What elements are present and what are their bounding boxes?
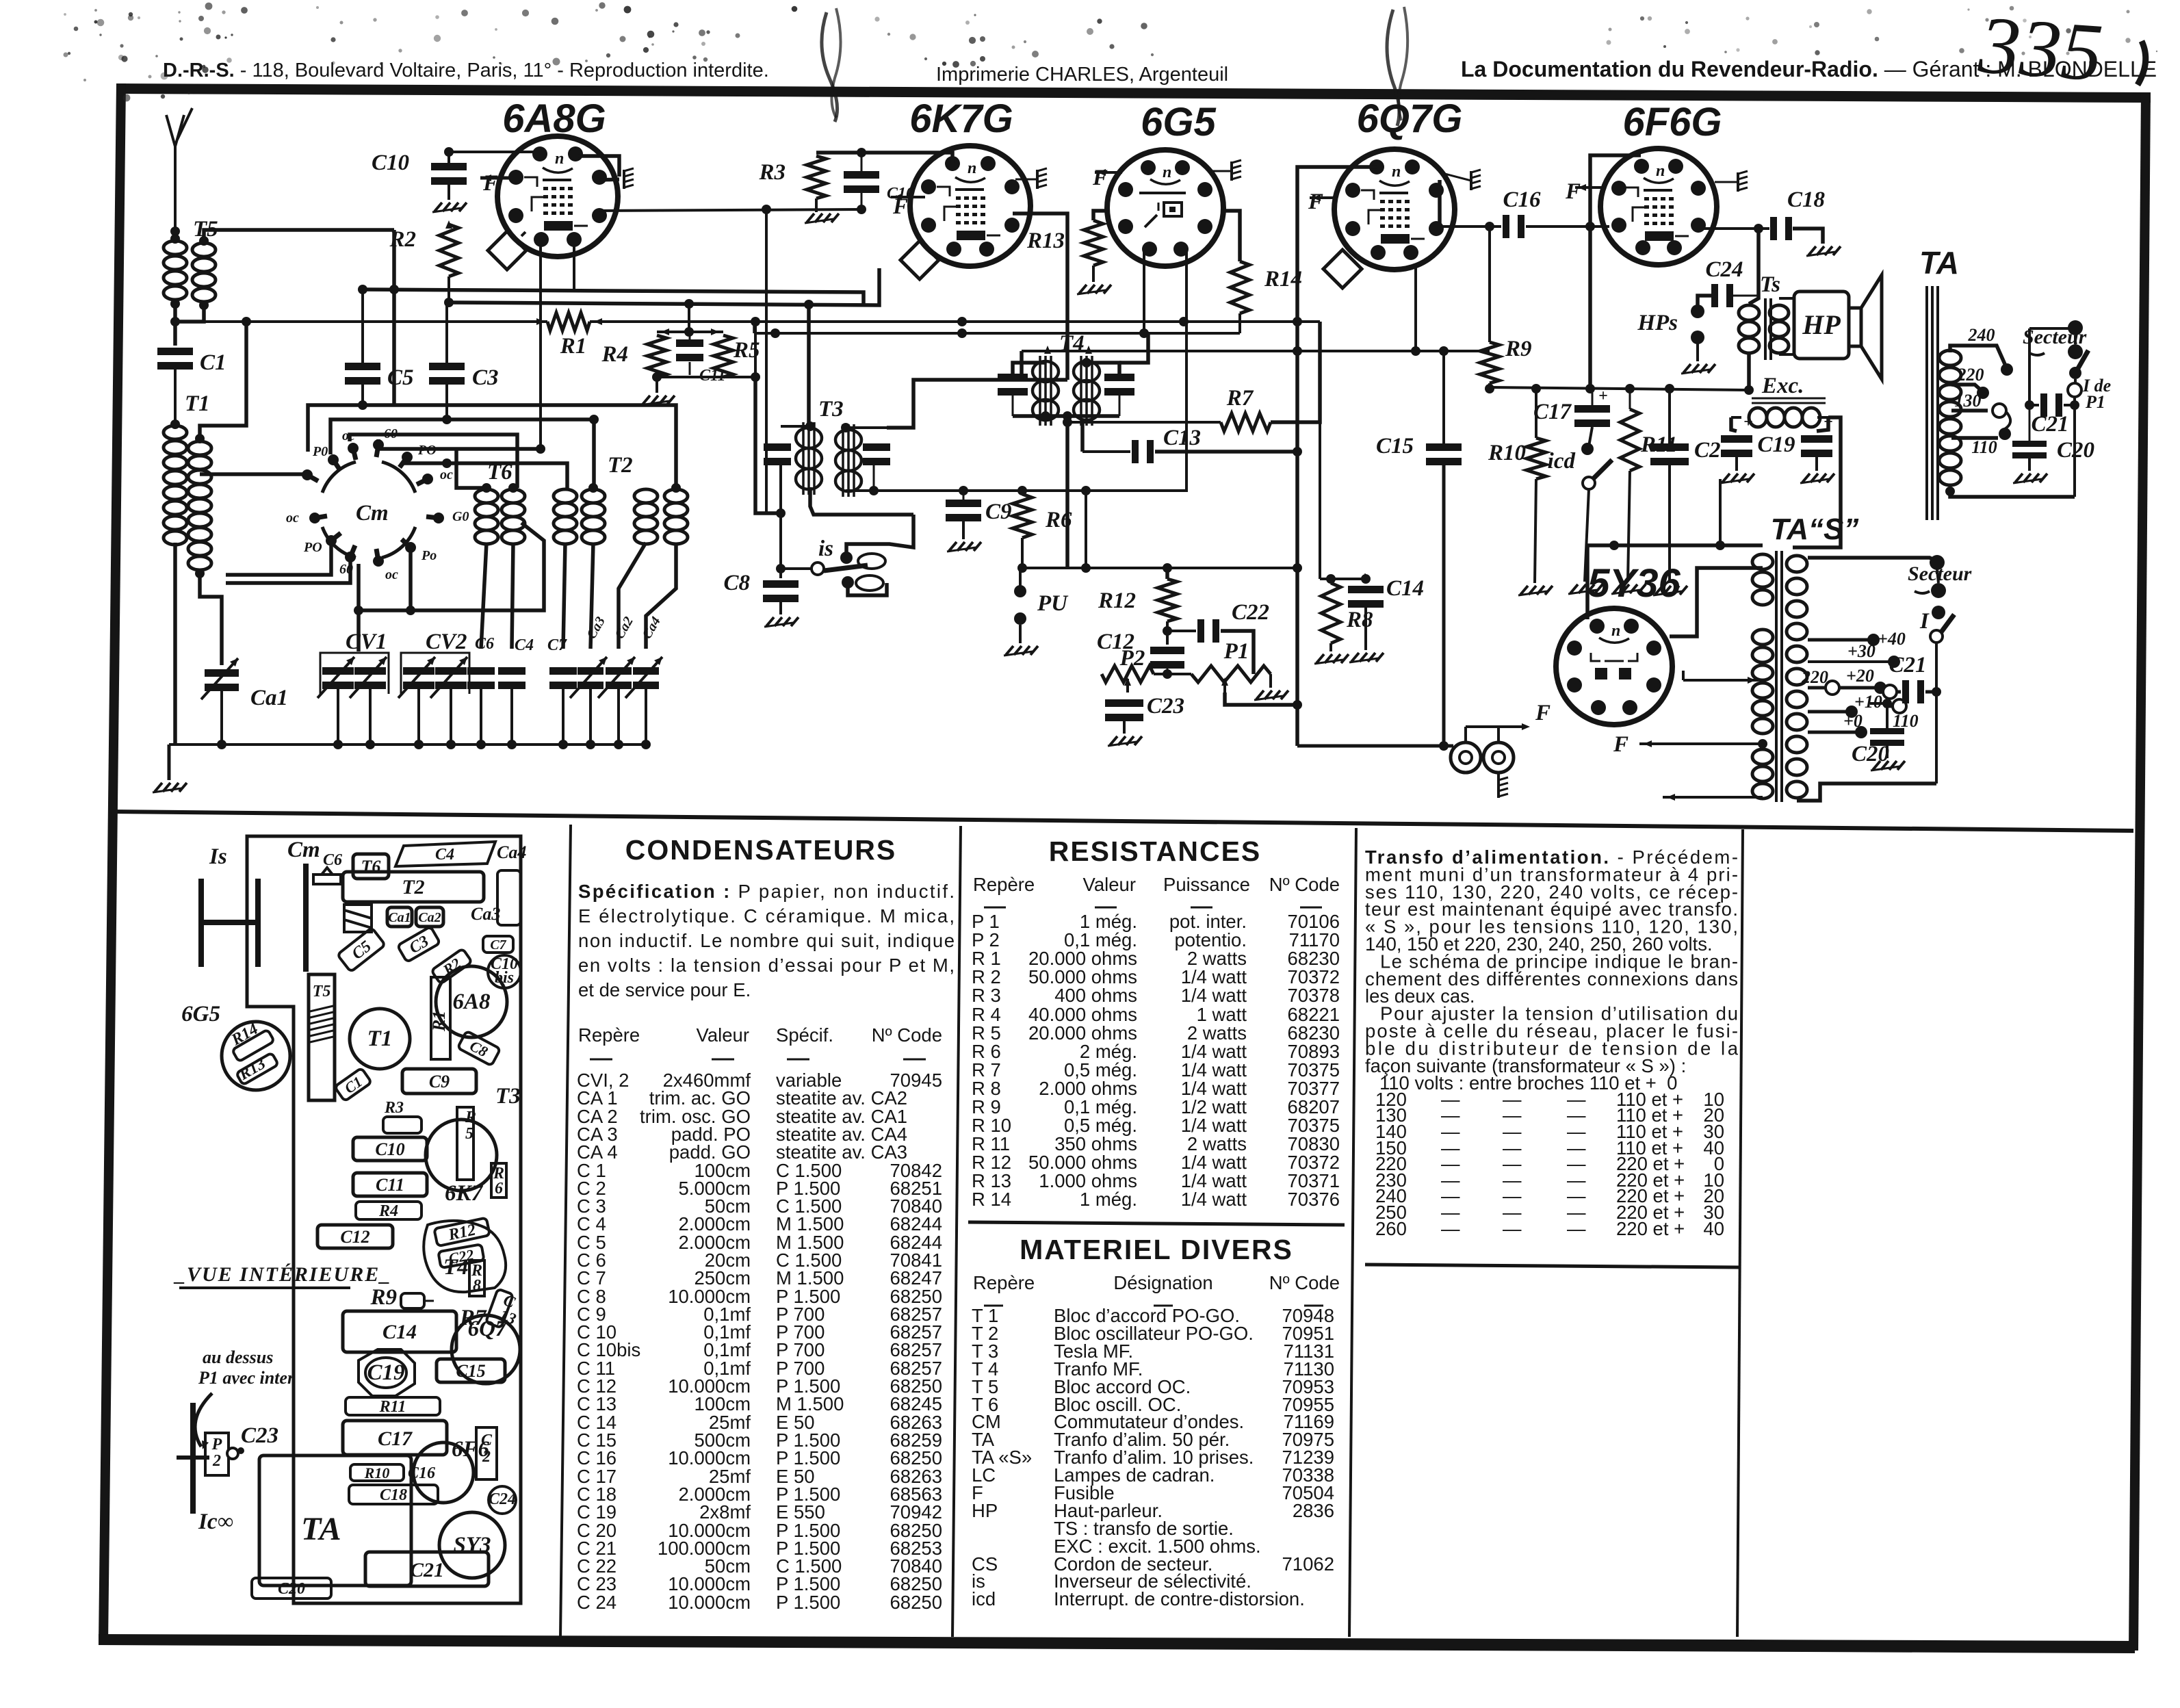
label Secteur TAS	[1908, 562, 1972, 593]
wire C19a stem	[1731, 417, 1737, 435]
svg-text:MATERIEL DIVERS: MATERIEL DIVERS	[1020, 1234, 1293, 1265]
svg-text:R1: R1	[560, 334, 587, 359]
svg-text:C18: C18	[380, 1486, 407, 1504]
svg-text:R9: R9	[1505, 337, 1532, 361]
svg-text:C9: C9	[429, 1072, 450, 1091]
coil T6 secondary	[502, 483, 525, 544]
wire TAS sec tap +20	[1839, 666, 1886, 694]
wire Ca3 to ground bus	[586, 689, 595, 749]
wire T2 w1 bottom to C7	[563, 543, 565, 649]
label F TAS	[1613, 732, 1628, 757]
transformer TA winding	[1939, 350, 1961, 485]
ground R10	[1518, 479, 1553, 595]
svg-text:Is: Is	[209, 844, 227, 869]
resistor R9	[1480, 337, 1532, 383]
coil T2 w2	[582, 483, 605, 544]
svg-text:n: n	[1656, 162, 1665, 180]
wire V5 plate line	[1704, 224, 1769, 233]
box C17 vue	[343, 1421, 447, 1455]
heater arrow jacks	[1466, 723, 1530, 742]
box P2 vue	[205, 1433, 238, 1475]
ground R13	[1077, 266, 1111, 294]
capacitor C13	[1132, 426, 1201, 463]
resistor R3	[758, 156, 826, 198]
tilted R2 vue	[431, 948, 472, 985]
ground HPs	[1681, 344, 1715, 374]
label T2	[608, 453, 633, 478]
svg-text:C11: C11	[376, 1175, 404, 1195]
svg-text:F: F	[1613, 732, 1628, 757]
label F V4	[1308, 190, 1323, 214]
potentiometer P2	[1102, 646, 1154, 682]
label T3	[818, 397, 844, 422]
capacitor C7	[547, 636, 577, 689]
chassis outline	[247, 836, 521, 1603]
wire Exc right down	[1793, 417, 1841, 547]
label Ca4 vue	[497, 842, 526, 862]
svg-text:C17: C17	[1533, 400, 1572, 424]
svg-text:C4: C4	[435, 846, 454, 864]
svg-text:C14: C14	[1386, 576, 1424, 601]
svg-text:Valeur: Valeur	[697, 1024, 749, 1046]
svg-text:non inductif. Le nombre qui su: non inductif. Le nombre qui suit, indiqu…	[578, 930, 955, 951]
wire R9 stem vue	[424, 1300, 434, 1302]
svg-text:Puissance: Puissance	[1163, 874, 1250, 895]
svg-text:F: F	[1535, 701, 1550, 725]
label F jacks	[1535, 701, 1550, 725]
svg-text:240: 240	[1968, 325, 1995, 345]
label C10	[372, 151, 409, 175]
label Exc	[1752, 374, 1826, 403]
wire bus avc (y487)	[755, 328, 1240, 338]
svg-text:n: n	[1392, 163, 1401, 181]
svg-text:PO: PO	[303, 540, 322, 555]
svg-text:R10: R10	[364, 1464, 390, 1481]
label CV2	[426, 630, 467, 654]
svg-text:C10: C10	[375, 1139, 404, 1159]
wire V1 cathode drop	[539, 237, 542, 449]
svg-text:C3: C3	[472, 365, 499, 390]
wire TA tap 240	[1950, 325, 2013, 376]
label C16	[1503, 187, 1541, 212]
svg-text:C22: C22	[1232, 600, 1269, 625]
wire TAS sec top	[1808, 558, 1937, 561]
wire C21 TAS leads	[1883, 685, 1941, 699]
svg-text:T6: T6	[361, 857, 381, 877]
box R9 vue	[369, 1285, 424, 1310]
box T5 vue	[309, 974, 335, 1100]
label Ico vue	[198, 1510, 233, 1534]
ground C18	[1806, 246, 1841, 256]
wire C2 top	[1668, 389, 1671, 443]
page frame right border	[2129, 92, 2151, 1651]
svg-text:C13: C13	[1163, 426, 1201, 450]
wire R4 cluster top rail	[657, 328, 723, 335]
hex C19 vue	[359, 1349, 415, 1396]
IF transformer T4 primary	[1033, 356, 1059, 426]
dial Is	[201, 879, 258, 967]
wire T4 bottom rail	[1013, 396, 1119, 421]
svg-text:is: is	[818, 536, 833, 561]
capacitor C9	[946, 500, 1012, 524]
label TA	[1919, 245, 1959, 281]
svg-text:+0: +0	[1843, 711, 1863, 731]
svg-text:8: 8	[473, 1277, 481, 1295]
header imprint right	[1461, 57, 2157, 81]
wire T1 primary bottom to ground bus	[173, 543, 177, 745]
divider schematic/tables	[112, 812, 2133, 831]
svg-text:C19: C19	[1757, 432, 1795, 457]
wire T3 sec bottom bus	[846, 486, 1188, 495]
label R2	[389, 227, 416, 252]
wire TA tap 110	[1951, 437, 1998, 457]
svg-text:TA: TA	[301, 1511, 341, 1547]
svg-text:C2: C2	[1694, 438, 1721, 463]
ground C23	[1108, 721, 1142, 746]
wire TAS mid tap	[1683, 671, 1759, 684]
svg-text:260: 260	[1375, 1218, 1407, 1239]
wire CV2a to ground bus	[414, 689, 424, 749]
node HPs	[1637, 305, 1704, 344]
text VUE INTERIEURE	[173, 1263, 391, 1288]
wire V4 shell gnd	[1440, 172, 1471, 181]
antenna	[166, 108, 192, 236]
svg-text:E électrolytique. C céramique.: E électrolytique. C céramique. M mica,	[578, 905, 955, 927]
wire R1 right bus	[590, 317, 1320, 326]
wire C3 bottom	[442, 385, 452, 424]
wire C13 left	[1082, 422, 1130, 452]
wire TAS sec tap 220	[1801, 667, 1839, 695]
wire T3 bottom left elbow	[810, 487, 913, 515]
wire CV2b to ground bus	[446, 689, 456, 749]
svg-text:2: 2	[212, 1452, 221, 1470]
svg-text:C23: C23	[1147, 694, 1184, 719]
svg-text:Cm: Cm	[356, 501, 389, 526]
ground P1	[1254, 674, 1288, 700]
wire V1 screen drop	[573, 237, 575, 291]
tube V5 6F6G	[1600, 148, 1717, 265]
switch is	[781, 552, 868, 588]
svg-text:Ca3: Ca3	[471, 904, 500, 924]
svg-text:110: 110	[1893, 711, 1919, 731]
label Is	[209, 844, 227, 869]
wire avc elbow	[753, 322, 757, 333]
switch secteur TAS	[1919, 555, 1954, 643]
wire C20 stem	[2029, 405, 2031, 441]
resistor R10	[1488, 438, 1546, 479]
switch secteur TA	[2029, 320, 2088, 379]
field coil Exc	[1731, 408, 1828, 427]
svg-text:Ca1: Ca1	[250, 686, 288, 710]
svg-text:RESISTANCES: RESISTANCES	[1049, 836, 1262, 867]
svg-text:T1: T1	[367, 1026, 393, 1051]
circle 6G5 vue	[181, 1002, 290, 1090]
svg-text:2836: 2836	[1293, 1500, 1334, 1521]
title CONDENSATEURS	[625, 834, 897, 866]
resistances table header	[973, 874, 1340, 907]
wire C3 top	[445, 302, 448, 363]
capacitor C11	[676, 332, 726, 385]
capacitor C4	[498, 636, 534, 689]
wire Cm nest bus 3	[350, 435, 517, 488]
svg-text:n: n	[1163, 164, 1171, 181]
wire grid bus left	[173, 322, 177, 346]
capacitor C12	[1097, 630, 1184, 669]
wire V6 top feed	[1715, 479, 1725, 550]
wire Cm bottom bus	[359, 523, 544, 610]
wire T3 right rail up	[887, 267, 1067, 428]
svg-text:R 14: R 14	[972, 1189, 1011, 1210]
condensateurs table rows	[577, 1070, 942, 1613]
wire bus y568	[1490, 384, 1749, 393]
svg-text:R7: R7	[1226, 386, 1254, 411]
wire R10 top	[1531, 384, 1541, 438]
svg-text:6A8G: 6A8G	[502, 96, 606, 141]
svg-text:C1: C1	[200, 350, 226, 375]
svg-text:R3: R3	[384, 1099, 404, 1117]
tube V6 5Y3G	[1556, 608, 1672, 725]
wire TA bottom rail	[1945, 487, 2075, 497]
svg-text:C21: C21	[1889, 653, 1926, 677]
svg-text:6A8: 6A8	[452, 989, 490, 1014]
label T4	[1059, 331, 1085, 356]
circle T1 vue	[350, 1009, 410, 1069]
svg-text:5Y36: 5Y36	[1587, 561, 1681, 606]
gang capacitor CV2a	[398, 657, 435, 698]
svg-text:+20: +20	[1846, 666, 1874, 686]
svg-text:n: n	[1611, 622, 1620, 640]
ground symbol main	[153, 745, 187, 792]
box C10 vue	[353, 1137, 427, 1161]
trimmer Ca2	[598, 614, 636, 698]
capacitor C19b	[1801, 413, 1833, 457]
svg-text:Ca2: Ca2	[418, 910, 441, 925]
ground PU	[1004, 625, 1038, 656]
wire TAS right vert	[1935, 642, 1938, 784]
paragraph condensateurs spec	[578, 881, 955, 1000]
wire R14 top	[1223, 211, 1240, 261]
heater arrow V2	[891, 194, 925, 200]
wire C15 bottom	[1439, 465, 1449, 751]
wire P2 to C12	[1154, 669, 1172, 679]
wire R6 bottom	[1017, 538, 1091, 573]
capacitor C16	[1503, 215, 1524, 238]
wire bus osc (y423)	[358, 285, 864, 306]
capacitor C18	[1770, 187, 1825, 240]
output transformer Ts secondary	[1769, 305, 1789, 353]
wire T3 top rail left	[781, 422, 815, 431]
capacitor C5	[345, 363, 414, 390]
wire R5 rail down to C8	[755, 377, 781, 513]
label 6A8G	[502, 96, 606, 141]
svg-text:C4: C4	[515, 636, 534, 654]
svg-text:oc: oc	[385, 567, 398, 582]
wire C16 line	[1440, 180, 1609, 231]
svg-text:R10: R10	[1488, 441, 1526, 465]
box C18 vue	[349, 1485, 438, 1504]
ground C9	[947, 521, 981, 552]
wire R9 bottom	[1485, 383, 1494, 393]
wire bus y513	[1022, 346, 1490, 356]
capacitor C8	[723, 571, 799, 602]
wire T3 plate vert	[804, 300, 814, 425]
label Cm vue	[287, 838, 320, 862]
ground C14	[1349, 653, 1384, 662]
wire C10 top	[444, 147, 454, 163]
wire C22 left	[1167, 630, 1196, 632]
box Ca2 vue	[416, 907, 443, 927]
svg-text:C: C	[481, 1432, 493, 1449]
P1 wiper arrow	[1221, 677, 1228, 693]
wire T4 right rail right	[1119, 333, 1148, 363]
label Secteur TA	[2023, 326, 2087, 355]
band switch Cm body	[322, 462, 415, 558]
label F V2	[892, 194, 908, 219]
svg-text:Valeur: Valeur	[1083, 874, 1136, 895]
trimmer Ca4	[625, 614, 664, 698]
wire bus y513 left end	[1020, 351, 1024, 380]
svg-text:C7: C7	[490, 937, 506, 953]
svg-text:C18: C18	[1787, 187, 1825, 212]
label 6K7G	[909, 96, 1013, 141]
svg-text:C10: C10	[372, 151, 409, 175]
wire V2 plate to T3	[1013, 213, 1067, 267]
box C12 vue	[317, 1225, 393, 1248]
transformer TAS primary b	[1752, 630, 1773, 734]
band switch Cm contacts	[286, 426, 469, 582]
svg-text:1/4 watt: 1/4 watt	[1181, 1189, 1247, 1210]
svg-text:C24: C24	[489, 1490, 516, 1508]
svg-text:400 ohms: 400 ohms	[1054, 985, 1137, 1006]
svg-text:1/4 watt: 1/4 watt	[1181, 985, 1247, 1006]
svg-text:+30: +30	[1847, 641, 1876, 661]
resistor R5	[714, 335, 760, 377]
wire Cm bottom drop 2	[406, 551, 415, 615]
svg-text:C8: C8	[723, 571, 750, 595]
wire R9 top	[1485, 222, 1494, 342]
svg-text:icd: icd	[1548, 449, 1576, 474]
capacitor C24	[1705, 257, 1743, 307]
wire T6 s bottom to C4	[512, 543, 513, 649]
svg-text:1 még.: 1 még.	[1080, 1189, 1137, 1210]
wire Cm nest bus 4	[378, 439, 545, 454]
title MATERIEL DIVERS	[1020, 1234, 1293, 1265]
svg-text:C6: C6	[475, 635, 494, 653]
staple mark left	[822, 8, 841, 122]
svg-text:F: F	[1308, 190, 1323, 214]
wire Cm left feed 3	[226, 560, 350, 583]
tilted R14 vue	[228, 1020, 274, 1062]
svg-text:Repère: Repère	[578, 1024, 640, 1046]
wire C9 top	[963, 491, 965, 500]
wire P1 left	[1167, 673, 1191, 675]
svg-text:220: 220	[1957, 365, 1984, 385]
tube V2 6K7G	[910, 146, 1030, 266]
svg-text:—: —	[1503, 1218, 1522, 1239]
node PU	[1014, 585, 1069, 625]
resistances table rows	[972, 911, 1340, 1210]
IF transformer T3 primary	[796, 422, 822, 495]
transformer T1 primary	[164, 426, 187, 545]
svg-text:Interrupt. de contre-distorsio: Interrupt. de contre-distorsion.	[1054, 1588, 1305, 1609]
label 6G5	[1141, 100, 1216, 144]
wire secteur chain	[2068, 379, 2081, 405]
box TA vue	[259, 1455, 411, 1586]
ground V5 shell	[1738, 171, 1748, 192]
wire TAS sec tap +10	[1808, 692, 1882, 718]
capacitor C3b left of T3	[764, 443, 791, 465]
svg-text:C6: C6	[323, 851, 342, 869]
wire CV1b to ground bus	[365, 689, 375, 749]
svg-text:6K7: 6K7	[445, 1181, 484, 1206]
svg-text:T4: T4	[443, 1255, 469, 1280]
wire V3 bottom-right drop	[1185, 252, 1188, 491]
wire bus y1090	[1297, 745, 1453, 748]
circle SY3 vue	[439, 1512, 505, 1578]
capacitor C1	[157, 348, 226, 375]
transformer TAS primary c	[1752, 749, 1773, 799]
box R5 vue	[457, 1107, 476, 1180]
coil T2 w3	[634, 489, 658, 544]
dial Cm bar	[303, 864, 309, 972]
svg-text:C14: C14	[382, 1321, 417, 1343]
box R4 vue	[356, 1202, 421, 1220]
IF transformer T4 secondary	[1044, 346, 1100, 426]
svg-text:PU: PU	[1037, 591, 1069, 616]
svg-text:Nº Code: Nº Code	[872, 1024, 942, 1046]
transformer TAS secondary	[1787, 556, 1807, 798]
resistor R8	[1321, 583, 1373, 643]
wire Cm nest bus 1	[308, 405, 676, 488]
wire cluster right vertical	[754, 322, 757, 377]
svg-text:70376: 70376	[1288, 1189, 1340, 1210]
svg-text:+: +	[1598, 387, 1608, 405]
wire Cm nest bus 2	[330, 415, 599, 488]
wire TAS bottom tap	[1663, 794, 1763, 801]
transformer T5 primary	[164, 234, 187, 309]
svg-text:Spécification : P papier, non: Spécification : P papier, non inductif.	[578, 881, 955, 902]
clamp C6 vue	[313, 851, 342, 884]
scan noise top	[64, 2, 2158, 101]
svg-text:C24: C24	[1705, 257, 1743, 282]
speaker HP cone	[1849, 275, 1882, 379]
wire C8 top	[776, 513, 786, 578]
resistor R12	[1098, 579, 1177, 621]
heater arrow V4	[1310, 194, 1336, 201]
svg-text:CONDENSATEURS: CONDENSATEURS	[625, 834, 897, 866]
capacitor C14	[1348, 569, 1424, 608]
wire V4 grid line	[1297, 167, 1377, 746]
label C16 vue	[408, 1464, 435, 1482]
capacitor C22	[1197, 600, 1269, 643]
paragraph transfo alimentation	[1365, 846, 1739, 1076]
ground C8	[764, 602, 799, 627]
label I de P1	[2082, 376, 2111, 412]
svg-text:Po: Po	[421, 548, 437, 563]
wire T6 top left	[456, 450, 486, 488]
heater arrow V1	[480, 174, 516, 181]
phono jack PU left	[1451, 738, 1481, 773]
svg-text:6Q7: 6Q7	[468, 1317, 508, 1341]
svg-text:6G5: 6G5	[1141, 100, 1216, 144]
wire T1 sec top elbow	[200, 317, 251, 439]
wire y717 to y830 vert	[1085, 491, 1087, 568]
svg-text:C20: C20	[278, 1580, 305, 1598]
svg-text:R9: R9	[369, 1285, 397, 1310]
svg-text:70378: 70378	[1288, 985, 1340, 1006]
svg-text:6K7G: 6K7G	[909, 96, 1013, 141]
ground C20 (TAS)	[1871, 746, 1905, 771]
